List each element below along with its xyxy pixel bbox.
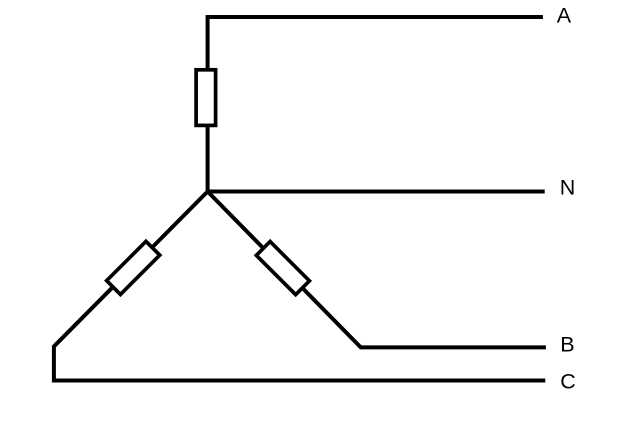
svg-text:A: A bbox=[557, 4, 572, 28]
svg-text:C: C bbox=[560, 370, 576, 394]
svg-text:N: N bbox=[560, 175, 576, 199]
svg-text:B: B bbox=[560, 332, 574, 356]
